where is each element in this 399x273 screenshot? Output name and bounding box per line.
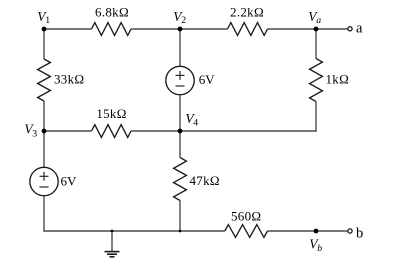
- ground stem: [111, 231, 113, 251]
- label V3: [24, 121, 37, 139]
- svg-text:6.8kΩ: 6.8kΩ: [95, 4, 129, 19]
- wire source to bottom-left corner: [43, 196, 45, 232]
- node V3 dot: [42, 129, 47, 134]
- label Vb: [309, 237, 322, 255]
- svg-text:6V: 6V: [199, 72, 216, 87]
- svg-text:a: a: [356, 20, 363, 36]
- svg-text:47kΩ: 47kΩ: [190, 173, 220, 188]
- voltage source 6V middle minus sign: [176, 85, 185, 87]
- ground bars: [105, 252, 120, 257]
- resistor 560 body: [225, 225, 268, 238]
- wire bottom rail left: [43, 230, 225, 232]
- svg-text:a: a: [316, 15, 321, 26]
- wire 6.8k to V2: [131, 28, 180, 30]
- wire 47k to bottom rail: [179, 201, 181, 232]
- resistor 33k body: [38, 59, 51, 101]
- junction 47k bottom dot: [179, 230, 182, 233]
- wire V2 down to source: [179, 29, 181, 66]
- label Va: [308, 9, 321, 26]
- svg-text:3: 3: [32, 128, 37, 139]
- voltage source 6V middle plus sign: [176, 71, 185, 80]
- wire V4 down to 47k: [179, 131, 181, 158]
- label V2: [173, 9, 186, 26]
- resistor 1k body: [310, 59, 323, 102]
- resistor 2.2k body: [228, 23, 268, 36]
- wire Va to terminal a: [316, 28, 348, 30]
- voltage source 6V left plus sign: [40, 172, 49, 181]
- wire source to V4: [179, 95, 181, 131]
- svg-text:b: b: [356, 226, 363, 242]
- wire 1k to middle rail: [315, 102, 317, 132]
- wire middle rail V4 to right branch: [180, 130, 317, 132]
- node Va dot: [314, 27, 319, 32]
- svg-text:33kΩ: 33kΩ: [54, 72, 84, 87]
- svg-text:560Ω: 560Ω: [231, 209, 261, 224]
- wire top rail V1 to 6.8k: [44, 28, 92, 30]
- node V4 dot: [178, 129, 183, 134]
- resistor 15k body: [92, 125, 132, 138]
- junction ground dot: [111, 230, 114, 233]
- label V1: [37, 9, 50, 26]
- svg-text:1kΩ: 1kΩ: [326, 71, 350, 86]
- terminal b open circle: [348, 229, 352, 233]
- svg-text:6V: 6V: [61, 173, 78, 188]
- wire left rail V1 to 33k: [43, 29, 45, 59]
- voltage source 6V left minus sign: [40, 186, 49, 188]
- svg-text:15kΩ: 15kΩ: [96, 106, 126, 121]
- voltage source 6V middle circle: [166, 66, 194, 94]
- wire 560 to Vb: [268, 230, 317, 232]
- wire middle rail V3 to 15k: [44, 130, 92, 132]
- node Vb dot: [314, 229, 319, 234]
- svg-text:2.2kΩ: 2.2kΩ: [230, 4, 264, 19]
- wire 33k to V3 to source: [43, 101, 45, 167]
- wire 2.2k to Va: [268, 28, 317, 30]
- resistor 6.8k body: [92, 23, 132, 36]
- node V2 dot: [178, 27, 183, 32]
- svg-text:1: 1: [45, 15, 50, 26]
- svg-text:2: 2: [181, 15, 186, 26]
- wire 15k to V4: [131, 130, 180, 132]
- wire Va down to 1k: [315, 29, 317, 59]
- terminal a open circle: [348, 27, 352, 31]
- label V4: [185, 111, 198, 129]
- wire Vb to terminal b: [316, 230, 348, 232]
- resistor 47k body: [174, 158, 187, 201]
- voltage source 6V left circle: [30, 167, 58, 195]
- wire V2 to 2.2k: [180, 28, 228, 30]
- svg-text:4: 4: [193, 118, 198, 129]
- svg-text:b: b: [317, 243, 322, 254]
- node V1 dot: [42, 27, 47, 32]
